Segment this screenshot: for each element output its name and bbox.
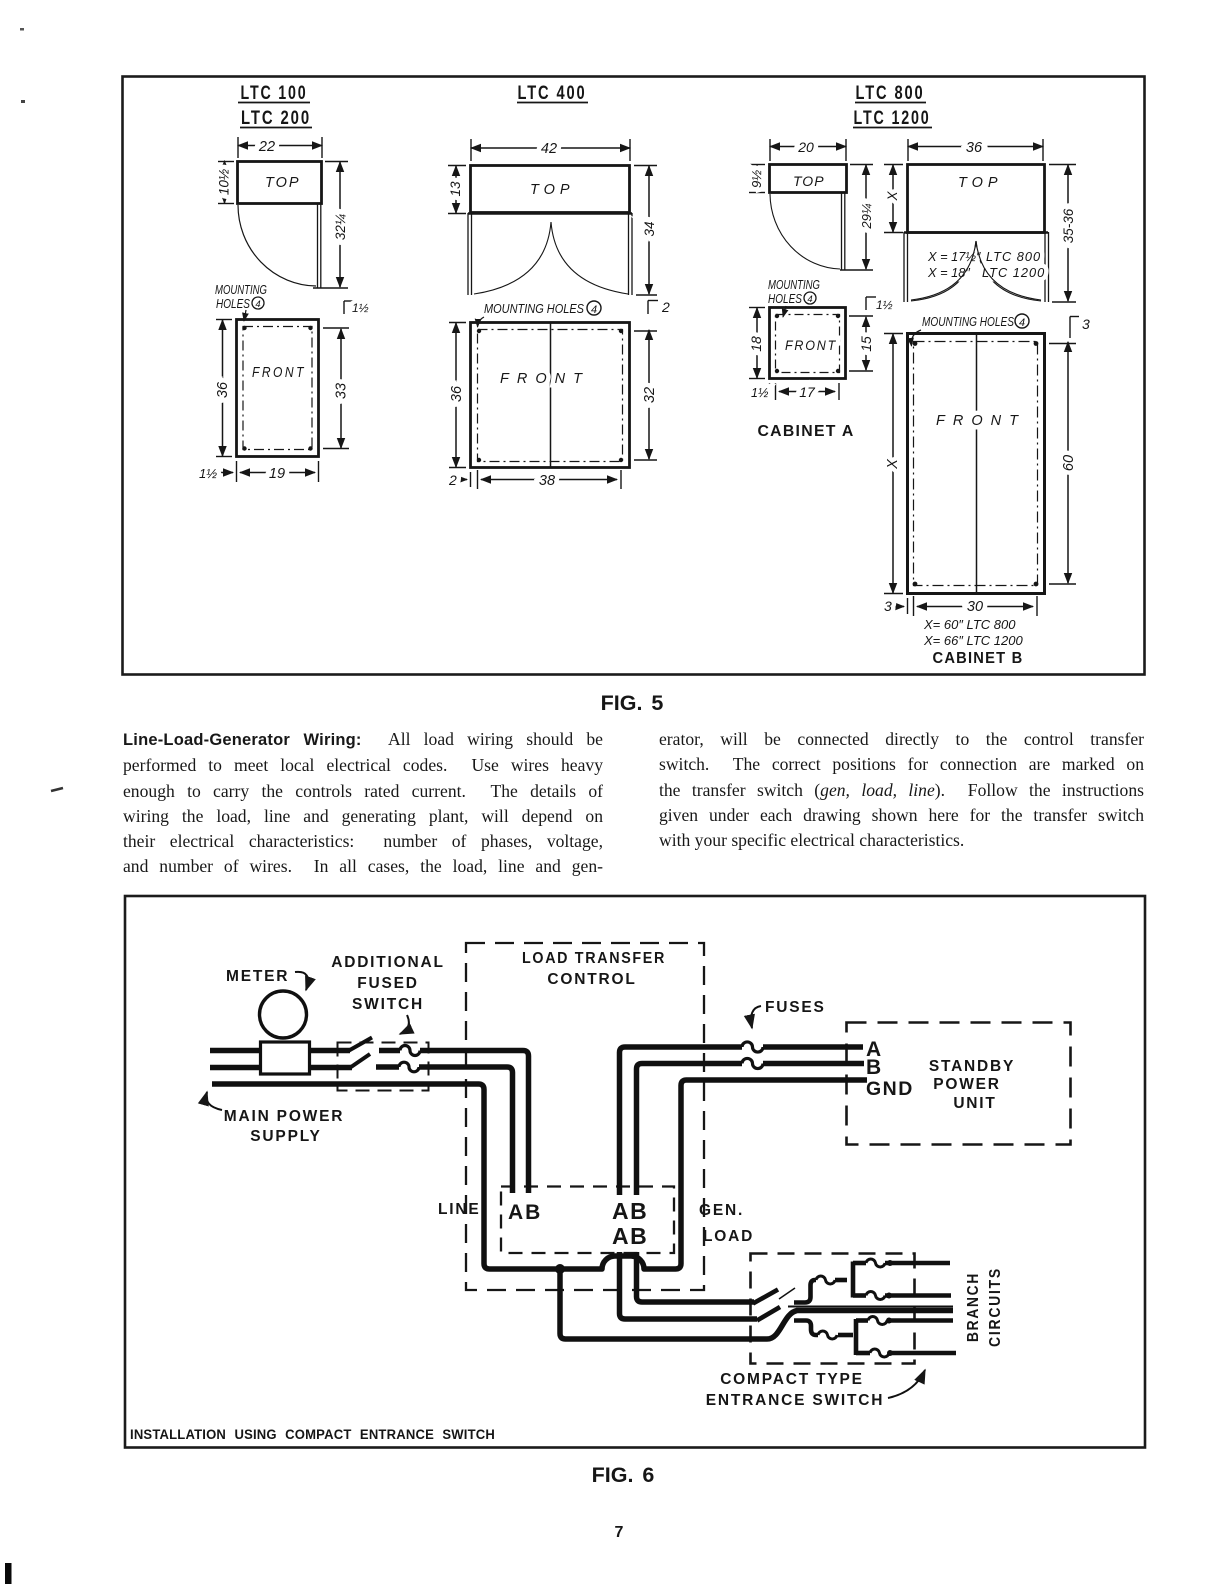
svg-text:CIRCUITS: CIRCUITS	[987, 1267, 1004, 1347]
svg-text:19: 19	[269, 466, 285, 482]
svg-text:15: 15	[858, 336, 874, 352]
svg-text:32: 32	[642, 387, 658, 403]
svg-text:29¼: 29¼	[859, 203, 874, 229]
svg-text:FIG. 6: FIG. 6	[592, 1463, 655, 1487]
svg-text:20: 20	[797, 139, 814, 155]
svg-text:LTC 400: LTC 400	[518, 82, 587, 104]
svg-text:TOP: TOP	[530, 182, 575, 198]
svg-text:AB: AB	[612, 1223, 648, 1249]
svg-text:9½: 9½	[749, 170, 764, 188]
svg-text:18: 18	[748, 336, 764, 352]
svg-text:HOLES: HOLES	[216, 297, 251, 311]
svg-text:22: 22	[258, 139, 275, 155]
svg-text:36: 36	[449, 385, 465, 402]
svg-text:36: 36	[215, 381, 231, 398]
svg-text:MOUNTING HOLES: MOUNTING HOLES	[922, 314, 1014, 329]
svg-text:LTC 100: LTC 100	[241, 82, 308, 104]
svg-text:FRONT: FRONT	[936, 413, 1026, 429]
svg-text:36: 36	[966, 140, 983, 156]
svg-text:GEN.: GEN.	[699, 1202, 744, 1219]
svg-text:4: 4	[255, 299, 260, 310]
svg-text:MOUNTING: MOUNTING	[768, 278, 820, 292]
svg-text:ENTRANCE SWITCH: ENTRANCE SWITCH	[706, 1392, 885, 1409]
svg-text:X= 66″ LTC 1200: X= 66″ LTC 1200	[923, 633, 1023, 648]
svg-text:LOAD TRANSFER: LOAD TRANSFER	[522, 950, 666, 967]
svg-text:42: 42	[541, 141, 557, 157]
svg-text:X: X	[885, 458, 901, 470]
svg-text:AB: AB	[612, 1198, 648, 1224]
svg-text:1½: 1½	[876, 298, 893, 312]
svg-text:3: 3	[884, 598, 892, 614]
svg-text:MOUNTING: MOUNTING	[215, 283, 267, 297]
svg-text:X = 18″: X = 18″	[927, 265, 970, 280]
svg-text:FUSES: FUSES	[765, 999, 826, 1016]
svg-text:7: 7	[615, 1524, 624, 1541]
svg-text:2: 2	[448, 472, 457, 488]
svg-text:FRONT: FRONT	[500, 371, 590, 387]
svg-text:SWITCH: SWITCH	[352, 996, 424, 1013]
svg-text:POWER: POWER	[933, 1076, 1001, 1093]
svg-text:MOUNTING HOLES: MOUNTING HOLES	[484, 301, 584, 316]
svg-text:34: 34	[642, 221, 657, 236]
svg-text:4: 4	[807, 294, 812, 305]
svg-text:1½: 1½	[751, 386, 769, 400]
svg-text:FRONT: FRONT	[252, 365, 306, 381]
svg-text:33: 33	[334, 383, 350, 399]
svg-text:METER: METER	[226, 968, 289, 985]
svg-text:B: B	[866, 1056, 881, 1079]
svg-text:2: 2	[661, 299, 670, 315]
svg-text:COMPACT TYPE: COMPACT TYPE	[720, 1371, 864, 1388]
svg-text:LTC 800: LTC 800	[986, 249, 1041, 264]
svg-text:CABINET A: CABINET A	[757, 423, 854, 440]
svg-text:38: 38	[539, 473, 555, 489]
svg-text:LTC 200: LTC 200	[241, 107, 311, 129]
svg-text:TOP: TOP	[265, 175, 301, 191]
svg-text:1½: 1½	[352, 301, 369, 315]
svg-text:X= 60″ LTC 800: X= 60″ LTC 800	[923, 617, 1016, 632]
svg-text:1½: 1½	[199, 466, 217, 481]
svg-text:10½: 10½	[217, 169, 232, 195]
svg-text:FRONT: FRONT	[785, 337, 837, 353]
svg-text:MAIN POWER: MAIN POWER	[224, 1108, 344, 1125]
svg-text:TOP: TOP	[793, 173, 825, 189]
svg-text:60: 60	[1061, 455, 1077, 471]
svg-text:TOP: TOP	[958, 175, 1003, 191]
svg-text:BRANCH: BRANCH	[965, 1272, 982, 1342]
svg-text:X: X	[885, 191, 900, 202]
svg-text:30: 30	[967, 599, 983, 615]
svg-text:3: 3	[1082, 316, 1090, 332]
svg-text:ADDITIONAL: ADDITIONAL	[331, 954, 445, 971]
svg-text:CABINET B: CABINET B	[933, 650, 1024, 667]
svg-text:HOLES: HOLES	[768, 292, 803, 306]
svg-text:FIG. 5: FIG. 5	[601, 691, 664, 715]
svg-text:UNIT: UNIT	[953, 1095, 996, 1112]
svg-text:INSTALLATION USING COMPACT ENT: INSTALLATION USING COMPACT ENTRANCE SWIT…	[130, 1427, 495, 1443]
svg-text:LOAD: LOAD	[703, 1228, 754, 1245]
svg-text:CONTROL: CONTROL	[547, 971, 636, 988]
svg-text:4: 4	[591, 304, 597, 316]
svg-text:13: 13	[448, 181, 463, 197]
svg-text:GND: GND	[866, 1078, 914, 1100]
svg-text:LTC 800: LTC 800	[856, 82, 925, 104]
svg-text:FUSED: FUSED	[357, 975, 419, 992]
svg-text:LINE: LINE	[438, 1201, 481, 1218]
svg-text:LTC 1200: LTC 1200	[854, 107, 931, 129]
svg-text:32¼: 32¼	[333, 214, 348, 240]
svg-text:SUPPLY: SUPPLY	[250, 1128, 321, 1145]
svg-text:4: 4	[1019, 317, 1025, 329]
svg-text:17: 17	[799, 384, 816, 400]
svg-text:AB: AB	[508, 1201, 542, 1224]
svg-text:STANDBY: STANDBY	[929, 1058, 1015, 1075]
svg-text:35-36: 35-36	[1061, 208, 1076, 243]
